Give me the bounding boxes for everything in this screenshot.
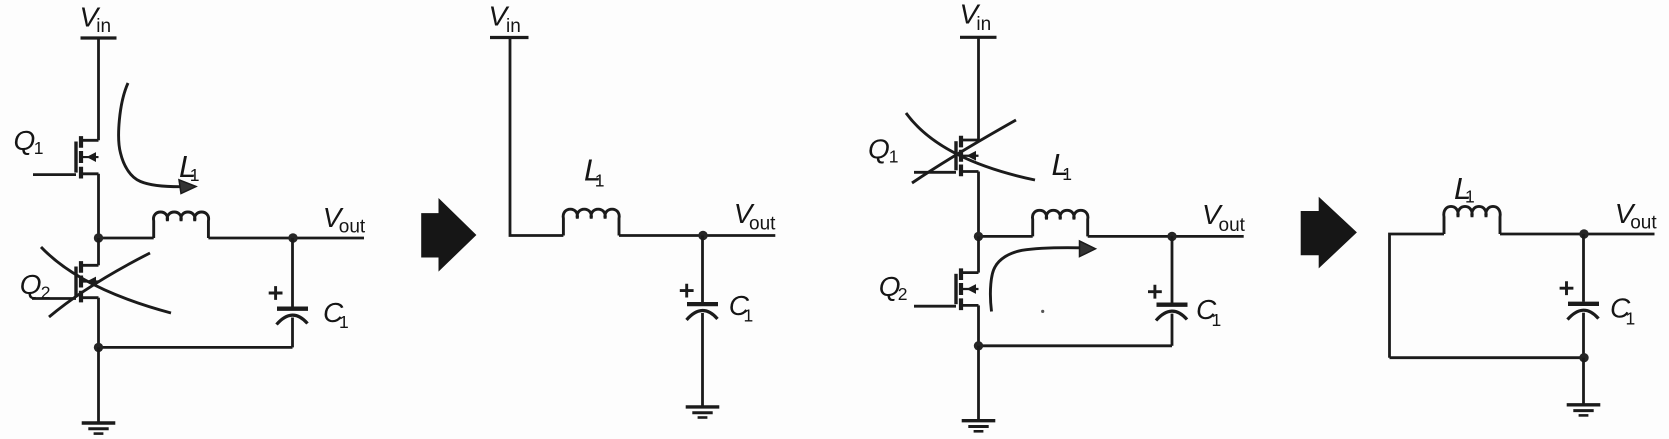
- wire L1 to V_out (panel 3): [1088, 235, 1244, 238]
- label Q1 (panel 3): [868, 133, 898, 166]
- svg-text:in: in: [976, 14, 991, 35]
- wire bottom node to ground (panel 4): [1582, 358, 1585, 405]
- wire L1 to V_out (panel 2): [619, 234, 775, 237]
- label V_out (panel 1): [323, 202, 366, 238]
- V_in vertical wire to Q1 drain (panel 3): [977, 37, 980, 140]
- current arrow through Q2 (panel 3): [990, 248, 1079, 312]
- cross-out stroke 1 over Q2 (panel 1): [41, 247, 171, 313]
- node output node (panel 1): [288, 233, 297, 242]
- wire switch node to Q2 drain (panel 3): [977, 236, 980, 272]
- svg-text:1: 1: [1062, 164, 1072, 184]
- transistor Q1 (panel 3): [914, 136, 979, 176]
- V_in terminal bar (panel 1): [81, 36, 117, 39]
- label Q2 (panel 3): [879, 271, 908, 304]
- wire output node to C1 (panel 1): [291, 238, 294, 307]
- wire output node to C1 (panel 4): [1582, 234, 1585, 302]
- wire Q1 source to switch node (panel 3): [977, 172, 980, 237]
- bottom return wire (panel 4): [1390, 356, 1585, 359]
- ground (panel 2): [686, 407, 720, 418]
- capacitor C1 (panel 1): [277, 309, 309, 325]
- inductor L1 (panel 2): [563, 209, 619, 235]
- label V_in (panel 3): [960, 0, 992, 35]
- node output node (panel 4): [1579, 229, 1588, 238]
- label Q2 (panel 1): [20, 269, 51, 303]
- capacitor C1 (panel 2): [687, 304, 719, 320]
- node bottom node (panel 1): [94, 343, 103, 352]
- svg-text:in: in: [506, 16, 521, 37]
- wire Q2 source to bottom node (panel 1): [97, 298, 100, 348]
- loop left + top wire (panel 4): [1390, 234, 1445, 358]
- svg-text:2: 2: [898, 284, 908, 304]
- wire to ground (panel 1): [97, 347, 100, 423]
- wire C1 to bottom node (panel 4): [1582, 313, 1585, 358]
- svg-text:1: 1: [34, 138, 44, 158]
- bottom return wire (panel 1): [99, 346, 293, 349]
- label Q1 (panel 1): [14, 125, 44, 158]
- svg-text:out: out: [1630, 213, 1657, 234]
- label L1 (panel 3): [1052, 147, 1072, 184]
- wire output node to C1 (panel 3): [1171, 236, 1174, 302]
- node output node (panel 3): [1167, 232, 1176, 241]
- svg-text:1: 1: [190, 165, 200, 185]
- plus polarity mark (panel 1): [269, 286, 283, 300]
- inductor L1 (panel 1): [153, 212, 208, 238]
- label V_in (panel 1): [80, 1, 112, 37]
- transition arrow 1: [421, 198, 476, 272]
- label L1 (panel 1): [179, 149, 200, 185]
- capacitor C1 (panel 4): [1568, 304, 1600, 320]
- label V_out (panel 4): [1615, 198, 1658, 234]
- wire L1 to V_out (panel 1): [208, 237, 364, 240]
- current arrow head (panel 1): [179, 180, 196, 194]
- bottom return wire (panel 3): [979, 344, 1173, 347]
- svg-text:1: 1: [339, 312, 349, 332]
- wire C1 bottom (panel 3): [1171, 314, 1174, 346]
- switch-node horizontal wire (panel 1): [99, 237, 154, 240]
- wire Q2 source to bottom node (panel 3): [977, 305, 980, 345]
- capacitor C1 (panel 3): [1156, 305, 1188, 321]
- V_in terminal bar (panel 3): [960, 36, 997, 39]
- wire Q1 source to switch node (panel 1): [97, 174, 100, 238]
- plus polarity mark (panel 3): [1148, 285, 1162, 299]
- node bottom node (panel 3): [974, 341, 983, 350]
- node output node (panel 2): [698, 231, 707, 240]
- current arrow head (panel 3): [1080, 241, 1096, 257]
- label V_out (panel 3): [1202, 199, 1246, 236]
- cross-out stroke 1 over Q1 (panel 3): [906, 113, 1035, 180]
- V_in vertical wire to Q1 drain (panel 1): [97, 38, 100, 140]
- transistor Q2 (panel 3): [914, 268, 979, 310]
- svg-text:1: 1: [1212, 310, 1222, 330]
- label C1 (panel 1): [323, 297, 349, 332]
- inductor L1 (panel 4): [1444, 206, 1500, 234]
- label C1 (panel 4): [1610, 293, 1635, 329]
- wire to ground (panel 3): [977, 346, 980, 421]
- wire C1 bottom (panel 1): [291, 318, 294, 348]
- svg-text:1: 1: [595, 170, 605, 190]
- stray ink speck: [1041, 310, 1044, 313]
- svg-text:Q: Q: [20, 269, 42, 300]
- plus polarity mark (panel 4): [1560, 281, 1574, 295]
- switch-node horizontal wire (panel 3): [979, 235, 1033, 238]
- label V_in (panel 2): [489, 1, 521, 37]
- svg-text:in: in: [96, 16, 111, 37]
- plus polarity mark (panel 2): [680, 284, 694, 298]
- wire output node to C1 (panel 2): [701, 236, 704, 303]
- svg-text:2: 2: [41, 282, 51, 302]
- svg-text:1: 1: [1626, 308, 1636, 328]
- label L1 (panel 2): [584, 153, 605, 191]
- label C1 (panel 3): [1196, 294, 1221, 330]
- svg-text:Q: Q: [14, 125, 36, 156]
- label V_out (panel 2): [734, 198, 776, 234]
- wire switch node to Q2 drain (panel 1): [97, 238, 100, 265]
- label C1 (panel 2): [729, 290, 754, 325]
- wire L1 to V_out (panel 4): [1500, 233, 1655, 236]
- ground (panel 1): [82, 423, 116, 434]
- wire C1 to ground (panel 2): [701, 313, 704, 407]
- svg-text:Q: Q: [868, 133, 890, 164]
- transistor Q1 (panel 1): [33, 136, 99, 178]
- ground (panel 4): [1567, 405, 1601, 416]
- node switch node (panel 3): [974, 232, 983, 241]
- V_in vertical wire (panel 2): [510, 38, 563, 236]
- svg-text:1: 1: [1465, 187, 1475, 207]
- svg-text:out: out: [1219, 215, 1246, 236]
- node bottom node (panel 4): [1579, 353, 1588, 362]
- ground (panel 3): [962, 421, 996, 432]
- transistor Q2 (panel 1): [32, 261, 99, 302]
- svg-text:out: out: [749, 213, 776, 234]
- node switch node (panel 1): [94, 233, 103, 242]
- cross-out stroke 2 over Q2 (panel 1): [49, 253, 150, 317]
- label L1 (panel 4): [1454, 171, 1475, 207]
- current arrow through Q1 (panel 1): [119, 83, 180, 187]
- transition arrow 2: [1301, 197, 1357, 269]
- inductor L1 (panel 3): [1032, 210, 1087, 236]
- svg-text:1: 1: [744, 305, 754, 325]
- cross-out stroke 2 over Q1 (panel 3): [912, 120, 1016, 183]
- V_in terminal bar (panel 2): [490, 36, 529, 39]
- svg-text:out: out: [339, 217, 366, 238]
- svg-text:1: 1: [889, 146, 899, 166]
